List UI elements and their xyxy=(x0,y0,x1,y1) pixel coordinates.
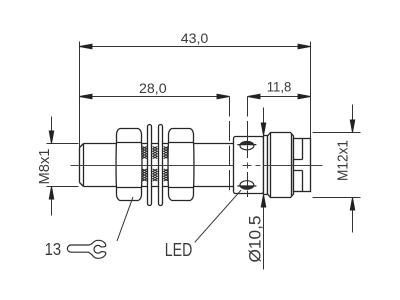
svg-text:M8x1: M8x1 xyxy=(36,149,53,185)
flat washer 1 xyxy=(148,125,152,206)
lock washer teeth column 3 xyxy=(164,147,169,182)
barrel M8 thread outline xyxy=(80,144,234,187)
flat washer 2 xyxy=(159,125,163,206)
dimension 11,8 xyxy=(248,96,311,98)
svg-text:M12x1: M12x1 xyxy=(335,140,352,181)
LED upper xyxy=(237,141,256,150)
hex nut 2 xyxy=(168,129,194,201)
dimension 43,0 xyxy=(80,42,311,148)
hex nut 1 xyxy=(116,129,142,201)
svg-text:11,8: 11,8 xyxy=(267,80,292,96)
leader line from wrench to hex nut 1 xyxy=(117,197,133,241)
housing body xyxy=(234,137,264,194)
lock washer teeth column 2 xyxy=(153,147,158,182)
svg-text:13: 13 xyxy=(45,239,62,259)
rear connector core xyxy=(294,139,311,192)
dimension 28,0 xyxy=(80,96,230,98)
wrench icon xyxy=(67,240,105,258)
sensor body drawing xyxy=(80,125,311,206)
wire centerline short dash in housing xyxy=(256,165,261,167)
leader line from LED label to lower LED xyxy=(195,190,241,242)
wire centerline right segment xyxy=(264,165,323,167)
svg-text:28,0: 28,0 xyxy=(139,81,167,97)
dimension diameter 10,5 xyxy=(263,108,265,270)
LED lower xyxy=(237,181,256,190)
extension line 28.0 dashed xyxy=(229,97,231,191)
svg-text:Ø10,5: Ø10,5 xyxy=(245,216,264,263)
svg-text:43,0: 43,0 xyxy=(181,31,209,47)
dimension M12x1 xyxy=(313,105,361,233)
extension line 11.8 / LED centerline dashed xyxy=(247,97,249,198)
lock washer teeth column 1 xyxy=(142,147,147,182)
dimension M8x1 xyxy=(47,117,79,216)
collar xyxy=(264,136,268,195)
wire centerline left segment xyxy=(71,165,234,167)
node center cross on axis xyxy=(243,165,252,167)
M12 ring xyxy=(268,133,294,198)
svg-text:LED: LED xyxy=(165,240,193,260)
